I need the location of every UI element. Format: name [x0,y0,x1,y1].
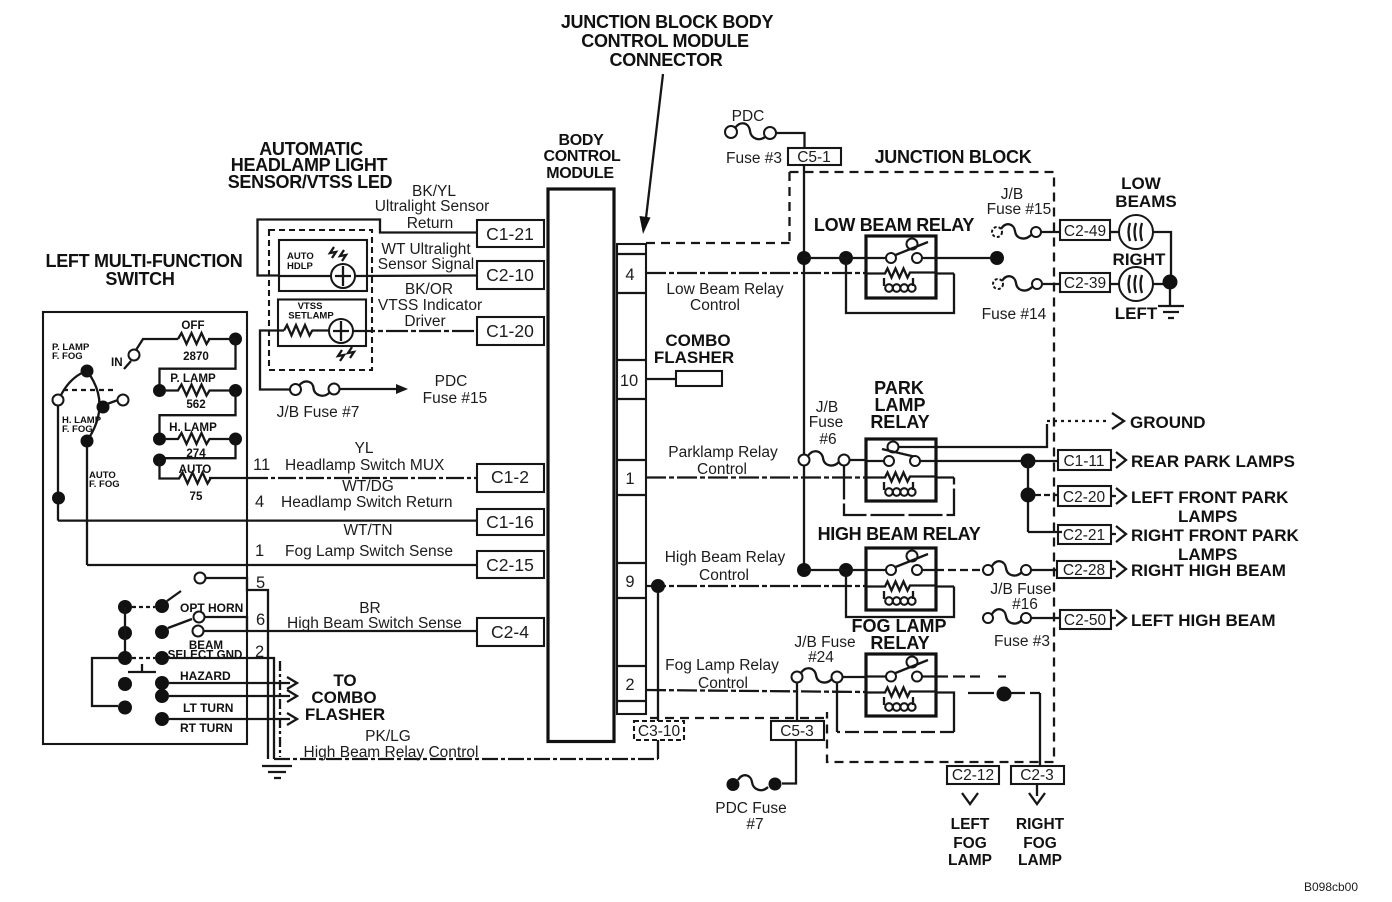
wire: pk/lg high beam relay control bottom [274,758,658,760]
svg-text:C2-50: C2-50 [1064,612,1107,629]
fuse: J/B Fuse #16 [983,561,1057,613]
wire: VTSS indicator driver (C1-20) [312,329,477,332]
node: high beam switch contact 5 [195,573,206,584]
svg-text:C2-3: C2-3 [1020,767,1054,784]
node: park output junction 1 [1021,454,1036,469]
pin C1-2 [477,464,544,492]
svg-text:CONTROL MODULE: CONTROL MODULE [581,31,749,51]
wire: ultralight sensor signal (C2-10) [279,274,477,277]
fuse: Fuse #3 (left high beam) [983,609,1060,650]
node: beam select contact [193,626,204,637]
svg-text:LEFT: LEFT [1115,304,1158,323]
label: body control module title [543,132,621,182]
svg-text:#16: #16 [1012,596,1038,613]
svg-text:RELAY: RELAY [870,412,929,432]
pin C1-16 [477,509,544,535]
wire: fuse 3 to C5-1 [776,133,805,148]
wire: to C1-11 [1035,460,1058,462]
arrows: to combo flasher [287,671,385,725]
svg-text:#7: #7 [746,816,763,833]
svg-text:Fuse #3: Fuse #3 [994,633,1050,650]
wire: headlamp return riser [57,405,59,521]
wire: fog lamp switch sense row 1 [87,564,477,566]
svg-text:C3-10: C3-10 [638,723,681,740]
ground: low beam lamps ground [1158,289,1184,318]
svg-text:CONNECTOR: CONNECTOR [610,50,723,70]
svg-text:Fog Lamp Switch Sense: Fog Lamp Switch Sense [285,543,453,560]
pin C2-12 with down arrow [947,766,999,869]
wire: fog wiper arm to P.LAMP F.FOG dot [61,372,84,395]
node: return junction [52,492,65,505]
svg-text:5: 5 [256,574,265,592]
node: OFF resistor right junction [229,333,242,346]
fuse: J/B Fuse #15 [987,186,1060,238]
wire: left bulb to common node [1153,283,1164,285]
svg-text:#24: #24 [808,649,834,666]
wire: OFF right dot to P.LAMP left dot [160,339,236,390]
svg-text:WT/DG: WT/DG [342,478,394,495]
pin C1-21 [477,220,544,247]
svg-text:LAMPS: LAMPS [1178,507,1238,526]
svg-text:High Beam Relay Control: High Beam Relay Control [304,744,479,761]
svg-text:P. LAMP: P. LAMP [170,372,216,385]
svg-text:WT/TN: WT/TN [343,522,392,539]
svg-text:GROUND: GROUND [1130,413,1206,432]
svg-text:FOG: FOG [953,835,987,852]
connector: BCM 32-way strip [617,244,646,714]
wire: BCM row 9 high beam relay control [646,585,866,587]
wire: ground bracket around hazard rows [92,658,118,706]
resistor R-AUTO 75 [153,454,211,504]
wire: BCM row 10 to combo flasher [646,378,676,380]
label: relay control wire names [665,281,786,692]
node: mid arc contact [97,401,110,414]
resistor: VTSS LED resistor [284,325,313,336]
svg-text:PDC: PDC [435,373,468,390]
wire: high beam relay feed [804,569,866,571]
label: wire gauge/color labels left rows [253,440,478,761]
svg-text:C2-12: C2-12 [952,767,994,784]
wire: P.LAMP right dot to H.LAMP left dot [160,391,236,440]
svg-text:Fuse #3: Fuse #3 [726,150,782,167]
svg-text:C5-1: C5-1 [797,149,831,166]
resistor R-PLAMP 562 [153,372,242,411]
svg-text:F. FOG: F. FOG [52,351,83,362]
svg-text:Fuse #14: Fuse #14 [982,306,1047,323]
svg-text:C5-3: C5-3 [780,723,814,740]
svg-text:#6: #6 [819,431,836,448]
svg-text:MODULE: MODULE [546,165,614,182]
svg-text:H. LAMP: H. LAMP [169,421,217,434]
svg-text:OPT HORN: OPT HORN [180,601,243,615]
svg-text:RIGHT FRONT PARK: RIGHT FRONT PARK [1131,526,1300,545]
svg-text:JUNCTION BLOCK: JUNCTION BLOCK [875,147,1032,167]
wire: low beam coil return loop [846,258,954,313]
node: H.LAMP F.FOG position [81,435,94,448]
pin C5-3 [771,721,824,740]
wire: fog output to C2-3 [968,692,1040,694]
node: OPT HORN contact [194,612,205,623]
wire: title arrow to BCM connector [640,74,664,234]
svg-text:4: 4 [255,493,264,511]
svg-text:C2-4: C2-4 [491,622,529,642]
wire: fuse 24 feed from C5-3 [796,683,798,722]
lamp: VTSS LED [329,319,353,343]
wire: low beam relay feed [804,257,866,259]
svg-text:Parklamp Relay: Parklamp Relay [668,444,778,461]
resistor R-OFF 2870 [178,319,210,363]
wire: junction block B+ vertical bus [803,165,805,570]
svg-text:LEFT HIGH BEAM: LEFT HIGH BEAM [1131,611,1276,630]
svg-text:Headlamp Switch MUX: Headlamp Switch MUX [285,457,445,474]
wire: park output down branch [1027,461,1029,532]
svg-text:C1-16: C1-16 [486,512,534,532]
switch: beam select row dots [118,619,192,640]
svg-text:OFF: OFF [181,319,204,332]
fuse: PDC Fuse #7 [715,775,787,833]
icon: emitted light rays [338,347,354,361]
fuse: PDC Fuse #3 top [725,108,782,167]
svg-text:REAR PARK LAMPS: REAR PARK LAMPS [1131,452,1295,471]
pin C2-10 [477,261,544,289]
svg-text:BEAMS: BEAMS [1115,192,1176,211]
svg-text:SELECT GND: SELECT GND [168,649,243,662]
pin C1-20 [477,317,544,345]
svg-text:562: 562 [186,398,205,411]
wire: H.LAMP right dot to AUTO left dot [160,439,236,458]
svg-text:C1-21: C1-21 [486,224,534,244]
wire: headlamp switch mux row 11 to C1-2 [209,477,250,479]
svg-text:LAMP: LAMP [1018,852,1062,869]
svg-text:RIGHT: RIGHT [1113,250,1167,269]
svg-text:Control: Control [690,297,740,314]
pin C2-49 [1060,220,1110,240]
node: high beam coil return tap [839,563,853,577]
node: park output junction 2 [1021,488,1036,503]
multi-function switch S1 enclosure [43,312,247,744]
svg-text:C2-10: C2-10 [486,265,534,285]
svg-text:10: 10 [620,372,638,390]
svg-text:B098cb00: B098cb00 [1304,880,1358,894]
svg-text:High Beam Switch Sense: High Beam Switch Sense [287,615,462,632]
wire: pin 5 to ground riser [206,578,269,759]
wire: high beam switch sense row 6 [204,630,478,632]
svg-text:HDLP: HDLP [287,261,314,272]
svg-text:RIGHT HIGH BEAM: RIGHT HIGH BEAM [1131,561,1286,580]
svg-text:HIGH BEAM RELAY: HIGH BEAM RELAY [818,524,981,544]
svg-text:C2-39: C2-39 [1064,275,1106,292]
svg-text:1: 1 [255,542,264,560]
svg-text:PDC: PDC [732,108,765,125]
svg-text:Fuse: Fuse [809,414,843,431]
node: fog switch left contact [53,395,64,406]
svg-text:YL: YL [355,440,374,457]
wire: fog coil return loop [837,683,954,733]
svg-text:6: 6 [256,611,265,629]
wire: fuse 6 output to park relay [850,459,867,461]
lamp: right low beam bulb [1110,174,1177,269]
node: row 9 junction to C3-10 [651,579,665,593]
svg-text:4: 4 [625,266,634,284]
svg-text:LEFT: LEFT [951,816,990,833]
relay K2: park lamp relay [866,378,936,501]
lamp: photo sensor bulb [331,264,355,288]
svg-text:C2-21: C2-21 [1063,527,1105,544]
svg-text:RELAY: RELAY [870,633,929,653]
svg-text:FOG: FOG [1023,835,1057,852]
svg-text:2870: 2870 [183,350,209,363]
fuse: J/B Fuse #24 [792,634,856,683]
switch: hazard row [118,669,290,691]
svg-text:LOW: LOW [1121,174,1162,193]
icon: incoming light rays [330,247,346,261]
label: junction block body control module connector title [561,12,774,70]
wire: to C2-21 [1028,531,1062,533]
node: low beam coil return tap [839,251,853,265]
svg-text:JUNCTION BLOCK BODY: JUNCTION BLOCK BODY [561,12,774,32]
svg-text:11: 11 [253,456,270,474]
svg-text:RT TURN: RT TURN [180,721,233,735]
wire: BCM row 1 parklamp relay control [646,476,866,478]
svg-text:C1-2: C1-2 [491,467,529,487]
svg-text:Fuse #15: Fuse #15 [987,201,1052,218]
svg-text:C1-11: C1-11 [1063,453,1104,470]
wire: fog relay output dashes [936,675,1006,677]
svg-text:Control: Control [698,675,748,692]
wire: fuse 7 arrow to PDC fuse 15 [340,373,488,407]
wire: right bulb to common [1153,232,1171,275]
wire: low beam relay output [936,257,990,259]
svg-text:LAMP: LAMP [948,852,992,869]
label: automatic headlamp light sensor / VTSS LED title [228,139,393,192]
wire: BCM row 2 fog lamp relay control [646,690,866,692]
svg-text:RIGHT: RIGHT [1016,816,1065,833]
relay K3: high beam relay [818,524,981,610]
wire: OFF resistor left to IN wiper [136,339,178,350]
svg-text:IN: IN [111,356,123,369]
svg-text:SETLAMP: SETLAMP [288,311,334,322]
junction block dashed boundary [646,172,1054,762]
arrow+label: GROUND [1112,413,1206,432]
wire: ground lead dashed [1047,420,1108,422]
wire: ultralight sensor return (C1-21) [258,220,478,276]
wire: high beam coil return loop [846,570,954,617]
node: P.LAMP F.FOG position [81,365,94,378]
relay K4: fog lamp relay [852,616,947,716]
svg-text:9: 9 [625,573,634,591]
module: body control module box [548,189,614,742]
svg-text:2: 2 [625,676,634,694]
svg-text:1: 1 [625,470,634,488]
node: rotary wiper IN contact [129,350,140,361]
component: VTSS setlamp box [278,300,366,347]
svg-text:Control: Control [697,461,747,478]
node: fog switch right contact [118,395,129,406]
fuse: J/B Fuse #6 [799,399,850,466]
pin C1-11 with arrow [1058,450,1295,471]
svg-text:Fog Lamp Relay: Fog Lamp Relay [665,657,779,674]
switch: rt turn row [155,712,290,735]
wire: C5-3 down to PDC fuse 7 [782,740,796,784]
svg-text:PK/LG: PK/LG [365,728,411,745]
switch: OPT HORN row dots [118,591,243,615]
node: B+ bus to low beam relay feed [797,251,811,265]
svg-text:FLASHER: FLASHER [654,348,734,367]
wire: VTSS feed down to J/B fuse 7 [260,331,290,390]
node: B+ bus to high beam relay [797,563,811,577]
svg-text:Low Beam Relay: Low Beam Relay [666,281,783,298]
label: sensor wire names [375,183,490,330]
wire: select gnd dash-dot parallel run [279,661,281,757]
svg-text:Driver: Driver [404,313,445,330]
wire: opt horn contact to pin 6 [205,617,248,631]
wire: to C2-20 [1035,494,1058,496]
wire: park relay coil return loop [844,466,954,516]
svg-text:CONTROL: CONTROL [543,148,621,165]
svg-text:C1-20: C1-20 [486,321,534,341]
svg-text:FLASHER: FLASHER [305,705,385,724]
svg-text:J/B Fuse #7: J/B Fuse #7 [277,404,360,421]
svg-text:C2-15: C2-15 [486,555,534,575]
svg-text:HAZARD: HAZARD [180,669,231,683]
pin C2-28 with arrow [1057,561,1286,580]
wire: fuse 24 to fog relay [843,676,867,678]
svg-text:Control: Control [699,567,749,584]
svg-text:Sensor Signal: Sensor Signal [378,256,475,273]
wire: wiper arm pointer [124,361,131,369]
component: auto headlamp sensor box [279,240,367,291]
svg-text:F. FOG: F. FOG [89,479,120,490]
pin C2-39 [1060,273,1110,292]
switch: select gnd row dots [118,639,242,665]
svg-text:SENSOR/VTSS LED: SENSOR/VTSS LED [228,172,393,192]
pin C3-10 [634,721,684,740]
wire: mid contact arm [107,400,118,404]
node: fog output junction [997,687,1012,702]
wire: headlamp switch return row 4 [58,519,477,521]
svg-text:75: 75 [190,490,203,503]
wire: fog sense riser to row 1 [86,447,88,565]
label: left multi-function switch title [46,251,243,289]
svg-text:Fuse #15: Fuse #15 [423,390,488,407]
svg-text:BK/OR: BK/OR [405,281,453,298]
sensor module dashed enclosure [269,230,372,370]
pin C2-4 [477,618,544,646]
pin C5-1 [788,148,841,166]
pin C2-15 [477,551,544,578]
connector pin boxes on BCM left side [477,220,544,646]
svg-text:LEFT MULTI-FUNCTION: LEFT MULTI-FUNCTION [46,251,243,271]
resistor R-HLAMP 274 [153,421,242,460]
wire: gang dashed link [63,389,117,391]
svg-text:SWITCH: SWITCH [105,269,174,289]
wire: fog switch arc [87,371,100,441]
component: hazard push button [128,664,156,672]
svg-text:LT TURN: LT TURN [183,701,233,715]
svg-text:High Beam Relay: High Beam Relay [665,549,786,566]
svg-text:PDC Fuse: PDC Fuse [715,800,787,817]
svg-text:BODY: BODY [558,132,604,149]
wire: park relay output [936,460,1021,462]
ground: multi-function switch ground [262,766,292,778]
svg-text:VTSS Indicator: VTSS Indicator [378,297,482,314]
switch: lt turn row [118,689,290,715]
component: combo flasher box [654,331,734,386]
wire: high beam relay output to fuse 16 [936,569,983,571]
svg-text:Ultralight Sensor: Ultralight Sensor [375,198,490,215]
svg-text:Return: Return [407,215,454,232]
wire: park relay armature to ground arrow [899,424,1048,447]
relay K1: low beam relay [814,215,974,298]
wire: pin 2 select gnd to ground riser [169,658,274,759]
pin C2-50 with arrow [1060,610,1276,630]
svg-text:C2-28: C2-28 [1063,562,1105,579]
pin C2-3 with down arrow [1011,766,1065,869]
svg-text:LEFT FRONT PARK: LEFT FRONT PARK [1131,488,1289,507]
wire: riser row9 to C3-10 and down to bottom wire [657,593,659,759]
pin C2-21 with arrow [1058,525,1300,564]
lamp: left low beam bulb [1110,267,1158,323]
svg-text:LOW BEAM RELAY: LOW BEAM RELAY [814,215,974,235]
svg-text:F. FOG: F. FOG [62,424,93,435]
svg-text:C2-49: C2-49 [1064,223,1106,240]
node: low beam output terminal [990,251,1004,265]
wire: BCM row 4 low beam relay control [646,272,866,274]
fuse: J/B Fuse #7 [277,381,360,421]
fuse: Fuse #14 [982,276,1060,323]
node: low beam lamps common [1163,275,1178,290]
svg-text:2: 2 [255,643,264,661]
svg-text:Headlamp Switch Return: Headlamp Switch Return [281,494,452,511]
svg-text:C2-20: C2-20 [1063,489,1106,506]
pin C2-20 with arrow [1058,486,1289,526]
wire: left column bus [124,607,126,658]
